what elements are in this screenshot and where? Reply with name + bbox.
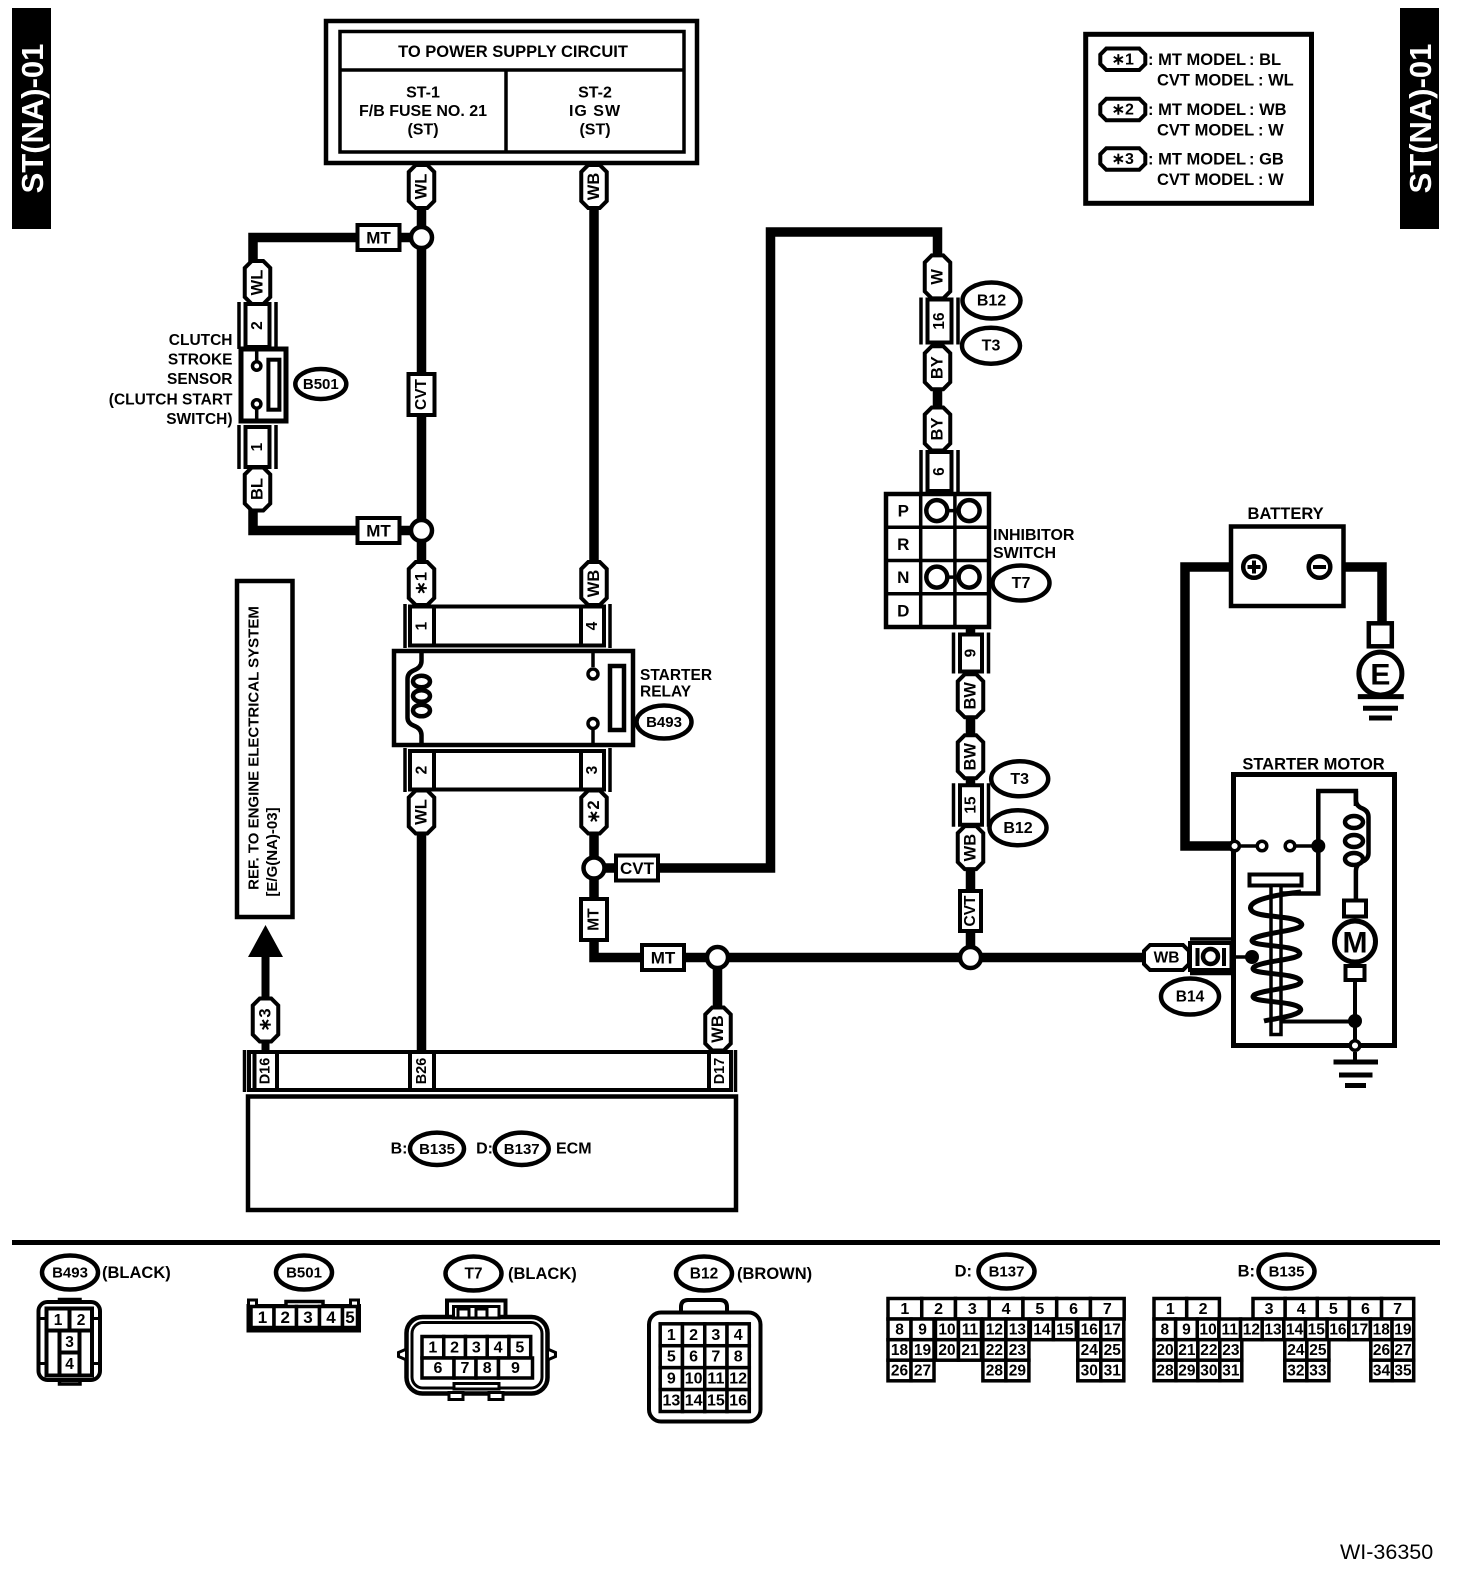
svg-text:16: 16 [1081,1321,1099,1338]
svg-text:(BLACK): (BLACK) [508,1265,577,1283]
inhibitor pin 6 box [921,450,958,493]
svg-text:5: 5 [1035,1301,1044,1318]
svg-text:BATTERY: BATTERY [1248,505,1324,523]
svg-text:3: 3 [65,1334,74,1351]
svg-text:5: 5 [667,1349,676,1366]
separator rule [12,1240,1440,1245]
svg-text:BW: BW [962,743,980,771]
svg-text:(BROWN): (BROWN) [737,1265,812,1283]
svg-text:D: D [897,601,909,620]
svg-text:8: 8 [1161,1321,1170,1338]
connector W inhibitor feed [925,255,951,298]
svg-text:BW: BW [962,682,980,710]
wire label MT horizontal on starter line [642,945,684,970]
wire CVT label box to junction on starter line [966,927,976,957]
svg-text:2: 2 [77,1312,86,1329]
svg-text:STROKE: STROKE [168,352,233,369]
ground E connector box [1369,623,1392,646]
starter plunger to motor link [1274,1020,1350,1024]
svg-text:B26: B26 [414,1058,430,1085]
wire label MT vertical [581,899,607,940]
wire label CVT vertical [960,891,981,931]
svg-text:25: 25 [1309,1342,1327,1359]
ECM body box [248,1097,736,1211]
connector ref B12 bottom [676,1257,812,1291]
svg-text:6: 6 [689,1349,698,1366]
svg-text:2: 2 [1199,1301,1208,1318]
svg-text:3: 3 [711,1327,720,1344]
svg-text:15: 15 [1056,1321,1074,1338]
svg-text:14: 14 [1033,1321,1051,1338]
connector *3 to ECM D16 [253,999,279,1042]
svg-text:BY: BY [929,418,947,441]
connector *2 relay pin 3 wire [581,791,607,834]
relay connector row pins 2 and 3 [405,748,610,792]
wire CVT branch: junction right, up and across to inhibitor switch [597,232,938,868]
svg-text:6: 6 [1069,1301,1078,1318]
inhibitor pin 16 box [921,298,958,345]
svg-text:F/B FUSE NO. 21: F/B FUSE NO. 21 [359,103,487,120]
svg-text:CVT MODEL: CVT MODEL [1157,72,1254,90]
svg-text:CVT: CVT [962,895,979,927]
connector WB to starter motor [1144,945,1189,970]
connector BW upper [958,674,984,717]
svg-text:ST(NA)-01: ST(NA)-01 [15,44,50,194]
svg-text:CVT MODEL: CVT MODEL [1157,171,1254,189]
svg-text:26: 26 [891,1363,909,1380]
svg-text:14: 14 [685,1393,703,1410]
wire clutch loop top: junction to MT label and down to WL connector [253,238,422,264]
svg-text:6: 6 [931,467,948,476]
svg-text:20: 20 [1156,1342,1173,1359]
svg-text:14: 14 [1286,1321,1304,1338]
wire WB to CVT label box [966,866,976,895]
wire clutch loop bottom: BL connector down and right to junction [253,505,422,531]
svg-text:SWITCH: SWITCH [993,545,1056,562]
svg-text:32: 32 [1287,1362,1304,1379]
svg-text:MT: MT [651,949,676,968]
svg-text:(ST): (ST) [407,122,438,139]
svg-text:∗2: ∗2 [585,800,603,823]
svg-text:19: 19 [1394,1321,1412,1338]
svg-text:25: 25 [1104,1342,1122,1359]
svg-text:∗3: ∗3 [257,1008,275,1031]
right page label bar ST(NA)-01 [1400,8,1439,229]
wire label MT bottom [358,518,400,543]
wire battery negative to ground E [1326,567,1382,627]
label D: with ellipse B137 [476,1133,549,1165]
svg-text:WI-36350: WI-36350 [1340,1540,1433,1564]
starter motor case ground circle [1350,1041,1360,1051]
svg-text:T3: T3 [1010,771,1029,788]
svg-text:B493: B493 [646,714,682,731]
connector *1 relay pin 1 wire [409,562,435,605]
svg-text:B137: B137 [989,1264,1025,1281]
starter contact terminal 2 [1257,841,1267,851]
svg-text:9: 9 [1182,1321,1191,1338]
connector ref B493 [637,706,692,739]
starter ground symbol [1334,1052,1379,1086]
connector WL from fuse [409,165,435,208]
svg-text:35: 35 [1394,1362,1412,1379]
starter inner link to solenoid [1234,950,1260,964]
svg-text:9: 9 [511,1360,520,1377]
svg-text:17: 17 [1104,1321,1121,1338]
wire inhibitor chain stub 6-table [933,488,943,497]
legend note box for *1 *2 *3 wire colors [1086,34,1312,203]
wire WL main vertical from power box to relay pin 1 [417,161,427,565]
svg-text:WB: WB [709,1015,727,1043]
svg-text:SENSOR: SENSOR [167,371,232,388]
svg-text:REF. TO ENGINE ELECTRICAL SYST: REF. TO ENGINE ELECTRICAL SYSTEM [246,606,263,890]
svg-text:B12: B12 [977,293,1006,310]
svg-text:1: 1 [414,621,431,630]
wire battery positive to starter motor contact [1185,567,1247,846]
connector BL clutch stroke sensor pin 1 wire [245,468,271,511]
label starter relay [640,667,712,701]
connector ref B12 lower [990,810,1047,845]
junction node on starter line right [960,947,981,968]
svg-text:STARTER MOTOR: STARTER MOTOR [1242,756,1384,774]
connector ref T3 top [962,328,1020,364]
svg-text:31: 31 [1104,1363,1122,1380]
wire label CVT horizontal [616,856,658,881]
svg-text:T7: T7 [464,1266,482,1283]
svg-text:7: 7 [711,1349,720,1366]
svg-text:: W: : W [1258,122,1284,140]
svg-text:18: 18 [1373,1321,1391,1338]
svg-text:10: 10 [685,1371,703,1388]
svg-text:WB: WB [962,834,980,862]
svg-text:6: 6 [1361,1301,1370,1318]
svg-text:29: 29 [1178,1362,1196,1379]
svg-text:BL: BL [249,478,267,500]
svg-text:1: 1 [54,1312,63,1329]
svg-text:7: 7 [1393,1301,1402,1318]
label WI-36350 [1340,1540,1433,1564]
label B: with connector ref B135 bottom [1238,1255,1315,1289]
svg-text:CVT: CVT [620,859,655,878]
svg-text:: MT MODEL: : MT MODEL [1148,51,1246,69]
svg-text:12: 12 [729,1371,747,1388]
svg-text:[E/G(NA)-03]: [E/G(NA)-03] [264,807,281,896]
svg-text:27: 27 [914,1363,931,1380]
svg-text:1: 1 [900,1301,909,1318]
connector WL clutch stroke sensor pin 2 wire [245,261,271,304]
svg-text:M: M [1343,927,1368,960]
svg-text:N: N [897,568,909,587]
connector BY lower [925,408,951,451]
starter motor M block [1335,901,1376,1043]
svg-text:B:: B: [1238,1263,1255,1281]
svg-text:D:: D: [476,1140,493,1157]
svg-text:27: 27 [1394,1342,1411,1359]
svg-text:W: W [929,269,947,285]
svg-text:2: 2 [450,1339,459,1356]
svg-text:2: 2 [689,1327,698,1344]
svg-text:B501: B501 [303,376,339,393]
svg-text:22: 22 [986,1342,1003,1359]
svg-text:9: 9 [918,1321,927,1338]
connector ref B501 bottom [276,1256,332,1290]
svg-text:3: 3 [303,1308,312,1327]
svg-text:E: E [1370,659,1390,692]
wire relay pin 2 down to ECM B26 [417,830,427,1055]
svg-text:BY: BY [929,356,947,379]
wire inhibitor table to 9 box [966,624,976,640]
svg-text:T3: T3 [982,338,1001,355]
svg-text:8: 8 [895,1321,904,1338]
svg-text:(ST): (ST) [579,122,610,139]
svg-text:21: 21 [961,1342,979,1359]
svg-text:6: 6 [434,1360,443,1377]
wire label CVT on WL line [409,374,435,415]
svg-text:4: 4 [326,1308,336,1327]
wire BW to BW stub [966,712,976,738]
starter contact node filled [1311,839,1325,853]
svg-text:RELAY: RELAY [640,684,692,701]
svg-text:T7: T7 [1012,575,1031,592]
svg-text:∗3: ∗3 [1112,151,1134,168]
connector ref B501 [295,369,346,399]
svg-text:21: 21 [1178,1342,1196,1359]
svg-text:28: 28 [1156,1362,1174,1379]
starter solenoid plunger T bar [1250,875,1302,1035]
svg-text:ST-2: ST-2 [578,85,612,102]
wire junction down to ECM D17 [713,960,723,1055]
connector BW lower [958,735,984,778]
svg-text:33: 33 [1309,1362,1327,1379]
wire ECM D16 to *3 connector [262,1040,270,1055]
svg-text:(BLACK): (BLACK) [102,1264,171,1282]
svg-text:12: 12 [986,1321,1003,1338]
svg-text:ECM: ECM [556,1140,592,1157]
connector ref T7 bottom [446,1257,577,1291]
svg-text:30: 30 [1081,1363,1098,1380]
svg-text:WB: WB [585,173,603,201]
svg-text:24: 24 [1287,1342,1305,1359]
svg-text:16: 16 [1329,1321,1347,1338]
wire 9 box to BW [966,668,976,680]
ECM connector strip [245,1050,736,1092]
svg-text:9: 9 [963,648,980,657]
connector WB to ECM D17 [705,1008,731,1051]
svg-text:28: 28 [986,1363,1004,1380]
svg-text:16: 16 [931,312,948,330]
svg-text:D:: D: [955,1263,972,1281]
starter solenoid feed path [1279,791,1356,894]
wire inhibitor chain stub BY-6 [933,446,943,456]
connector B12 pin face drawing [649,1300,761,1422]
svg-text:CVT: CVT [413,378,430,410]
connector T7 pin face drawing [399,1301,556,1400]
svg-text:20: 20 [938,1342,955,1359]
svg-text:B501: B501 [286,1265,322,1282]
svg-text:: MT MODEL: : MT MODEL [1148,101,1246,119]
svg-text:D16: D16 [258,1058,274,1085]
svg-text:D17: D17 [712,1058,728,1085]
ECM pin B26 box [410,1052,434,1090]
svg-text:B135: B135 [419,1141,455,1158]
svg-text:24: 24 [1081,1342,1099,1359]
wire inhibitor chain stubs W-16 [933,295,943,305]
svg-text:B137: B137 [504,1141,540,1158]
svg-text:2: 2 [281,1308,290,1327]
svg-text:5: 5 [1329,1301,1338,1318]
connector ref B12 top [963,283,1021,319]
starter motor bottom junction dot [1348,1014,1362,1028]
svg-text:B:: B: [391,1140,408,1157]
svg-text:11: 11 [1222,1321,1239,1338]
svg-text:WL: WL [413,174,431,200]
svg-text:8: 8 [483,1360,492,1377]
ECM pin D17 box [709,1052,731,1090]
wire MT branch: junction down through MT labels to starter motor line [594,872,1148,958]
starter contact terminal 3 [1285,841,1295,851]
svg-text:MT: MT [366,229,391,248]
svg-text:2: 2 [414,766,431,775]
svg-text:13: 13 [1264,1321,1282,1338]
svg-text:2: 2 [249,321,266,330]
svg-text:∗1: ∗1 [413,572,431,595]
svg-text:13: 13 [662,1393,680,1410]
connector WB inhibitor out [958,826,984,869]
starter motor body box [1234,775,1395,1046]
svg-text:: WB: : WB [1249,101,1287,119]
starter solenoid spring [1251,892,1302,1021]
svg-text:WL: WL [249,270,267,296]
svg-text:7: 7 [461,1360,470,1377]
inhibitor pin 15 box [954,783,989,827]
svg-text:B12: B12 [1003,820,1032,837]
connector B137 pin grid [888,1299,1124,1381]
svg-text:IG SW: IG SW [569,103,621,120]
svg-text:3: 3 [1265,1301,1274,1318]
svg-text:TO POWER SUPPLY CIRCUIT: TO POWER SUPPLY CIRCUIT [398,43,628,61]
label clutch stroke sensor [109,332,233,428]
svg-text:29: 29 [1009,1363,1027,1380]
svg-text:3: 3 [472,1339,481,1356]
svg-text:13: 13 [1009,1321,1027,1338]
label D: with connector ref B137 bottom [955,1255,1035,1289]
svg-text:CLUTCH: CLUTCH [169,332,233,349]
clutch sensor pin 2 box [239,302,276,349]
arrow head into REF box [248,925,283,957]
svg-text:STARTER: STARTER [640,667,712,684]
svg-text:10: 10 [1199,1321,1216,1338]
left page label bar ST(NA)-01 [12,8,51,229]
svg-text:INHIBITOR: INHIBITOR [993,527,1075,544]
connector ref T3 lower [991,761,1048,796]
svg-text:22: 22 [1200,1342,1217,1359]
svg-text:SWITCH): SWITCH) [166,411,232,428]
svg-text:5: 5 [515,1339,524,1356]
svg-text:: W: : W [1258,171,1284,189]
svg-text:WB: WB [585,570,603,598]
svg-text:: GB: : GB [1249,151,1284,169]
svg-text:11: 11 [962,1321,979,1338]
svg-text:ST(NA)-01: ST(NA)-01 [1403,44,1438,194]
svg-text:4: 4 [734,1327,743,1344]
svg-text:19: 19 [914,1342,932,1359]
starter field coil [1345,791,1369,902]
svg-text:17: 17 [1351,1321,1368,1338]
svg-text:MT: MT [586,908,603,931]
connector B493 pin face drawing [39,1300,101,1385]
svg-text:4: 4 [494,1339,503,1356]
starter contact link lines [1241,844,1312,848]
svg-text:12: 12 [1243,1321,1260,1338]
svg-text:B14: B14 [1176,989,1205,1006]
svg-text:30: 30 [1200,1362,1217,1379]
svg-text:WL: WL [413,799,431,825]
svg-text:4: 4 [1297,1301,1306,1318]
svg-text:3: 3 [968,1301,977,1318]
svg-text:: MT MODEL: : MT MODEL [1148,151,1246,169]
svg-text:2: 2 [934,1301,943,1318]
connector ref B14 [1161,979,1219,1015]
wire label MT top [358,225,400,250]
svg-text:∗1: ∗1 [1112,51,1134,68]
ground E symbol [1358,652,1404,718]
wire inhibitor chain stub BY-BY [933,385,943,412]
wire inhibitor chain stubs 16-BY [933,339,943,350]
junction node below *2 [584,858,605,879]
clutch sensor pin 1 box [239,425,276,469]
svg-text:1: 1 [1166,1301,1175,1318]
svg-text:WB: WB [1154,950,1180,967]
svg-text:15: 15 [707,1393,725,1410]
starter contact terminal 1 [1230,841,1240,851]
svg-text:16: 16 [729,1393,747,1410]
junction node at MT wire top [411,227,432,248]
connector BY upper [925,346,951,389]
connector B135 pin grid [1154,1299,1414,1381]
junction node on starter line left [707,947,728,968]
svg-text:15: 15 [963,796,980,814]
svg-text:5: 5 [345,1308,354,1327]
label inhibitor switch [993,527,1075,562]
label battery [1248,505,1324,523]
svg-text:23: 23 [1009,1342,1027,1359]
inhibitor switch contact table [886,494,989,627]
svg-text:ST-1: ST-1 [406,85,440,102]
svg-text:∗2: ∗2 [1112,102,1134,119]
ref to engine electrical system box [237,581,293,917]
wire relay pin 3 down to junction below *2 [589,830,599,870]
connector WB from IG switch [581,165,607,208]
svg-text:26: 26 [1373,1342,1391,1359]
label starter motor [1242,756,1384,774]
svg-text:1: 1 [667,1327,676,1344]
svg-text:34: 34 [1373,1362,1391,1379]
svg-text:7: 7 [1103,1301,1112,1318]
svg-text:11: 11 [707,1371,724,1388]
svg-text:B12: B12 [690,1266,718,1283]
svg-text:18: 18 [891,1342,909,1359]
svg-text:CVT MODEL: CVT MODEL [1157,122,1254,140]
svg-text:1: 1 [428,1339,437,1356]
svg-text:MT: MT [366,522,391,541]
svg-text:: BL: : BL [1249,51,1281,69]
svg-text:: WL: : WL [1258,72,1294,90]
label B: with ellipse B135 [391,1133,464,1165]
svg-text:31: 31 [1222,1362,1240,1379]
svg-text:3: 3 [584,765,601,774]
svg-text:4: 4 [1002,1301,1011,1318]
inhibitor pin 9 box [954,633,989,674]
svg-text:(CLUTCH START: (CLUTCH START [109,392,233,409]
